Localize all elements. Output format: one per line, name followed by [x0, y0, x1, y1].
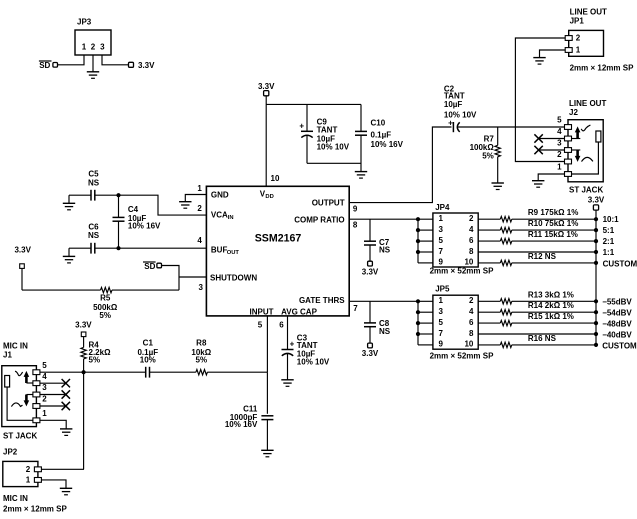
ground (J2 pin 1)	[532, 181, 544, 188]
svg-text:ST JACK: ST JACK	[3, 431, 37, 440]
svg-text:3: 3	[198, 283, 203, 292]
svg-text:R14 2kΩ 1%: R14 2kΩ 1%	[528, 301, 574, 310]
svg-text:5:1: 5:1	[603, 226, 615, 235]
node 2:1 label	[603, 237, 615, 246]
wire JP1 pin 2 to J2 pin 2	[515, 38, 565, 162]
pin 1 label	[197, 184, 202, 193]
node mic input junction	[82, 370, 86, 374]
svg-text:COMP RATIO: COMP RATIO	[294, 216, 344, 225]
svg-text:JP4: JP4	[435, 203, 450, 212]
capacitor C11 1000pF	[225, 372, 274, 450]
node BUF junction	[116, 246, 120, 250]
resistor R16 NS	[478, 334, 596, 347]
capacitor C1 0.1uF	[137, 338, 158, 377]
svg-text:2: 2	[469, 214, 474, 223]
svg-text:9: 9	[439, 258, 444, 267]
capacitor C8 NS	[364, 301, 391, 343]
resistor R9 175k	[478, 208, 596, 222]
ground (C5)	[63, 203, 75, 210]
node 3.3V pad (R5)	[14, 245, 31, 268]
svg-text:R12 NS: R12 NS	[528, 252, 557, 261]
wire J2 pin 3 no-connect	[534, 146, 564, 154]
wire J1 pin 4 no-connect	[40, 379, 70, 387]
node 3.3V supply rail	[258, 82, 275, 96]
svg-text:NS: NS	[88, 178, 100, 187]
svg-text:SSM2167: SSM2167	[255, 233, 302, 245]
pin 7 label	[353, 304, 358, 313]
pin 6 label	[279, 320, 284, 329]
wire VCA_IN pin 2	[119, 195, 207, 215]
svg-text:MIC IN: MIC IN	[3, 342, 28, 351]
wire -40dBV row	[478, 333, 596, 335]
svg-text:C1: C1	[143, 338, 154, 347]
svg-text:SHUTDOWN: SHUTDOWN	[210, 274, 257, 283]
svg-text:7: 7	[439, 247, 444, 256]
svg-text:4: 4	[42, 372, 47, 381]
node SD input terminal	[39, 61, 58, 70]
svg-text:GATE THRS: GATE THRS	[299, 296, 345, 305]
resistor R14 2k	[478, 301, 596, 315]
svg-text:SD: SD	[39, 61, 50, 70]
svg-text:LINE OUT: LINE OUT	[569, 99, 606, 108]
svg-text:R11 15kΩ 1%: R11 15kΩ 1%	[528, 230, 578, 239]
resistor R5 500k	[22, 268, 179, 319]
svg-text:INPUT: INPUT	[250, 307, 274, 316]
svg-text:3: 3	[42, 383, 47, 392]
svg-text:+: +	[448, 119, 453, 128]
capacitor C3 10uF TANT (AVG CAP)	[282, 316, 330, 380]
svg-text:10: 10	[464, 258, 473, 267]
svg-text:2: 2	[91, 43, 96, 52]
svg-text:NS: NS	[379, 327, 391, 336]
svg-text:4: 4	[469, 307, 474, 316]
wire J2 pin 4 no-connect	[534, 134, 564, 142]
svg-text:10% 16V: 10% 16V	[371, 140, 404, 149]
svg-text:R10 75kΩ 1%: R10 75kΩ 1%	[528, 219, 578, 228]
svg-text:R8: R8	[196, 338, 207, 347]
capacitor C7 NS	[364, 219, 391, 261]
node 3.3V pad (R4)	[75, 321, 92, 337]
svg-text:5%: 5%	[482, 152, 494, 161]
ground (J1 pin 1)	[60, 429, 72, 436]
svg-text:2: 2	[557, 150, 562, 159]
wire J2 pin 1 to ground	[538, 174, 564, 181]
wire JP4 left bus	[416, 217, 433, 263]
svg-text:R7: R7	[484, 134, 495, 143]
svg-text:3.3V: 3.3V	[75, 321, 92, 330]
ground (R7)	[492, 183, 504, 190]
wire SD to SHUTDOWN pin 3	[162, 266, 207, 291]
ground (IC pin 1)	[179, 202, 191, 209]
svg-text:JP2: JP2	[3, 448, 18, 457]
capacitor C5 NS	[69, 169, 119, 203]
ground (C10)	[355, 172, 367, 179]
resistor R10 75k	[478, 219, 596, 233]
wire OUTPUT pin 9 to C2	[349, 127, 452, 203]
wire C9 to C10 ground rail	[307, 162, 361, 164]
ground (C6)	[63, 256, 75, 263]
wire 1:1 row	[478, 251, 596, 253]
svg-text:3.3V: 3.3V	[362, 267, 379, 276]
svg-text:5%: 5%	[196, 356, 208, 365]
resistor R13 3k	[478, 290, 596, 304]
svg-text:4: 4	[557, 127, 562, 136]
svg-text:ST JACK: ST JACK	[569, 185, 603, 194]
svg-text:−40dBV: −40dBV	[602, 330, 632, 339]
svg-text:10:1: 10:1	[603, 215, 620, 224]
svg-text:3.3V: 3.3V	[138, 61, 155, 70]
svg-text:C10: C10	[371, 119, 386, 128]
svg-text:BUF: BUF	[211, 246, 228, 255]
svg-text:R13 3kΩ 1%: R13 3kΩ 1%	[528, 290, 574, 299]
svg-text:3.3V: 3.3V	[258, 82, 275, 91]
pin 3 label	[198, 283, 203, 292]
svg-text:3: 3	[439, 307, 444, 316]
node 3.3V terminal (C8)	[362, 343, 379, 358]
node 10:1 label	[603, 215, 620, 224]
svg-text:NS: NS	[379, 246, 391, 255]
svg-text:NS: NS	[88, 231, 100, 240]
connector JP3	[75, 18, 111, 56]
svg-text:DD: DD	[265, 194, 273, 200]
wire mic input line	[38, 371, 267, 373]
svg-text:1: 1	[197, 184, 202, 193]
svg-text:IN: IN	[228, 215, 234, 221]
svg-text:2: 2	[42, 395, 47, 404]
node -40dBV label	[602, 330, 632, 339]
svg-text:3.3V: 3.3V	[14, 245, 31, 254]
svg-text:LINE OUT: LINE OUT	[570, 8, 607, 17]
svg-text:9: 9	[439, 340, 444, 349]
wire J1 pin 1 to ground	[40, 420, 66, 429]
svg-text:1: 1	[26, 476, 31, 485]
svg-text:2: 2	[576, 34, 581, 43]
wire right 3.3V bus	[594, 210, 598, 347]
pin 2 label	[197, 204, 202, 213]
ground (C3)	[281, 380, 293, 387]
node CUSTOM label (JP5)	[602, 341, 637, 350]
node VCA junction	[116, 193, 120, 197]
svg-text:GND: GND	[211, 191, 229, 200]
resistor R8 10k	[191, 338, 211, 375]
node 3.3V terminal (C7)	[362, 261, 379, 276]
svg-text:CUSTOM: CUSTOM	[602, 341, 637, 350]
svg-text:VCA: VCA	[211, 211, 228, 220]
svg-text:R16 NS: R16 NS	[528, 334, 557, 343]
svg-text:−54dBV: −54dBV	[602, 309, 632, 318]
svg-text:8: 8	[353, 221, 358, 230]
resistor R15 1k	[478, 312, 596, 326]
svg-text:1: 1	[42, 409, 47, 418]
svg-text:MIC IN: MIC IN	[3, 494, 28, 503]
svg-text:2mm × 12mm SP: 2mm × 12mm SP	[570, 63, 634, 72]
svg-text:9: 9	[353, 205, 358, 214]
connector JP1 LINE OUT	[565, 8, 634, 73]
resistor R12 NS	[478, 252, 596, 265]
node 1:1 label	[603, 248, 615, 257]
wire GATE THRS pin 7 to JP5	[349, 300, 433, 302]
node -48dBV label	[602, 320, 632, 329]
svg-text:8: 8	[469, 329, 474, 338]
svg-text:5%: 5%	[89, 355, 101, 364]
svg-text:C4: C4	[128, 205, 139, 214]
wire JP1 pin 1 to ground	[540, 50, 566, 58]
wire JP3 pin 3 to 3.3V terminal	[102, 55, 129, 65]
ground (JP2 pin 1)	[60, 488, 72, 495]
svg-text:1: 1	[576, 46, 581, 55]
wire JP5 left bus	[416, 299, 433, 345]
svg-text:2:1: 2:1	[603, 237, 615, 246]
svg-text:C5: C5	[88, 169, 99, 178]
wire JP3 pin 1 to SD terminal	[58, 55, 84, 65]
svg-text:SD: SD	[144, 262, 155, 271]
svg-text:10% 10V: 10% 10V	[444, 110, 477, 119]
pin 8 label	[353, 221, 358, 230]
svg-text:4: 4	[197, 236, 202, 245]
svg-text:3: 3	[439, 225, 444, 234]
svg-text:AVG CAP: AVG CAP	[281, 307, 318, 316]
svg-text:2mm × 12mm SP: 2mm × 12mm SP	[3, 504, 67, 513]
svg-text:1: 1	[557, 163, 562, 172]
node CUSTOM label (JP4)	[603, 259, 637, 268]
wire JP2 pin 2 riser	[41, 372, 84, 469]
svg-text:J1: J1	[3, 351, 12, 360]
svg-text:5: 5	[42, 361, 47, 370]
wire BUF_OUT pin 4	[119, 247, 207, 249]
svg-text:7: 7	[439, 329, 444, 338]
wire GND pin 1	[185, 195, 206, 202]
wire COMP RATIO pin 8 to JP4	[349, 218, 433, 220]
svg-text:5: 5	[258, 320, 263, 329]
svg-text:+: +	[290, 340, 295, 349]
capacitor C6 NS	[69, 222, 119, 256]
svg-text:1: 1	[439, 296, 444, 305]
svg-text:JP1: JP1	[570, 16, 585, 25]
node 3.3V terminal (right bus)	[588, 195, 605, 210]
svg-text:2: 2	[26, 465, 31, 474]
svg-text:4: 4	[469, 225, 474, 234]
svg-text:10µF: 10µF	[444, 100, 463, 109]
jack J1 MIC IN ST JACK	[2, 342, 47, 441]
svg-text:8: 8	[469, 247, 474, 256]
svg-text:10: 10	[464, 340, 473, 349]
IC U1 SSM2167	[206, 186, 349, 316]
svg-text:2mm × 52mm SP: 2mm × 52mm SP	[430, 352, 494, 361]
ground (C11)	[261, 450, 273, 457]
wire decoupling rail	[266, 103, 361, 105]
svg-text:10: 10	[271, 174, 280, 183]
svg-text:3.3V: 3.3V	[362, 349, 379, 358]
node 5:1 label	[603, 226, 615, 235]
svg-text:R9 175kΩ 1%: R9 175kΩ 1%	[528, 208, 578, 217]
svg-text:1: 1	[439, 214, 444, 223]
svg-text:10% 10V: 10% 10V	[297, 358, 330, 367]
svg-text:C6: C6	[88, 222, 99, 231]
svg-text:6: 6	[469, 318, 474, 327]
svg-text:3: 3	[100, 43, 105, 52]
node 3.3V terminal (JP3)	[129, 61, 156, 70]
svg-text:10% 16V: 10% 16V	[128, 222, 161, 231]
svg-text:3.3V: 3.3V	[588, 195, 605, 204]
svg-text:7: 7	[353, 304, 358, 313]
wire 3.3V to VDD pin 10	[266, 96, 280, 187]
capacitor C2 10uF TANT	[444, 84, 565, 132]
jack J2 LINE OUT ST JACK	[557, 99, 606, 195]
svg-text:6: 6	[469, 236, 474, 245]
svg-text:2: 2	[469, 296, 474, 305]
pin 4 label	[197, 236, 202, 245]
ground (JP1 pin 1)	[533, 58, 545, 65]
svg-text:10%: 10%	[140, 356, 156, 365]
svg-text:2mm × 52mm SP: 2mm × 52mm SP	[430, 266, 494, 275]
wire J1 pin 3 no-connect	[40, 390, 70, 398]
svg-text:J2: J2	[569, 108, 578, 117]
svg-text:5: 5	[439, 236, 444, 245]
resistor R11 15k	[478, 230, 596, 244]
connector JP4	[430, 203, 494, 276]
wire JP2 pin 1 to ground	[41, 480, 66, 488]
resistor R7 100k	[470, 127, 501, 183]
svg-text:3: 3	[557, 139, 562, 148]
connector JP2 MIC IN	[3, 448, 68, 514]
svg-text:CUSTOM: CUSTOM	[603, 259, 637, 268]
svg-text:5: 5	[439, 318, 444, 327]
svg-text:+: +	[299, 122, 304, 131]
pin 9 label	[353, 205, 358, 214]
node -54dBV label	[602, 309, 632, 318]
svg-text:10% 16V: 10% 16V	[225, 420, 258, 429]
svg-text:−48dBV: −48dBV	[602, 320, 632, 329]
svg-text:TANT: TANT	[317, 126, 338, 135]
svg-text:JP5: JP5	[435, 285, 450, 294]
node -55dBV label	[602, 298, 632, 307]
svg-text:R5: R5	[100, 294, 111, 303]
pin 5 label	[258, 320, 263, 329]
svg-text:OUT: OUT	[227, 250, 240, 256]
svg-text:R15 1kΩ 1%: R15 1kΩ 1%	[528, 312, 574, 321]
svg-text:1:1: 1:1	[603, 248, 615, 257]
wire J1 pin 2 no-connect	[40, 402, 70, 410]
wire INPUT pin 5	[266, 316, 268, 372]
node SD terminal (shutdown)	[143, 262, 162, 271]
svg-text:6: 6	[279, 320, 284, 329]
capacitor C9 10uF TANT	[299, 104, 349, 163]
svg-text:−55dBV: −55dBV	[602, 298, 632, 307]
capacitor C4 10uF	[113, 195, 162, 248]
ground (JP3 pin 2)	[87, 55, 99, 78]
svg-text:5: 5	[557, 116, 562, 125]
svg-text:10% 10V: 10% 10V	[317, 142, 350, 151]
capacitor C10 0.1uF	[355, 104, 404, 171]
svg-text:1: 1	[82, 43, 87, 52]
svg-text:2: 2	[197, 204, 202, 213]
resistor R4 2.2k	[81, 336, 111, 372]
svg-text:JP3: JP3	[77, 18, 92, 27]
svg-text:OUTPUT: OUTPUT	[312, 198, 345, 207]
connector JP5	[430, 285, 494, 361]
svg-text:5%: 5%	[99, 311, 111, 320]
svg-text:0.1µF: 0.1µF	[371, 130, 392, 139]
